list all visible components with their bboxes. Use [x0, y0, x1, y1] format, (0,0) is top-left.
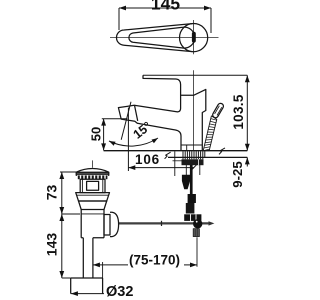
svg-text:50: 50 — [89, 127, 104, 141]
svg-text:73: 73 — [43, 185, 59, 201]
svg-text:15°: 15° — [131, 119, 155, 142]
svg-text:9-25: 9-25 — [230, 161, 245, 187]
svg-text:(75-170): (75-170) — [129, 252, 180, 267]
svg-text:Ø32: Ø32 — [106, 284, 133, 300]
svg-text:103.5: 103.5 — [231, 94, 246, 129]
svg-text:145: 145 — [151, 0, 180, 13]
svg-text:106: 106 — [135, 152, 160, 167]
svg-text:143: 143 — [44, 233, 60, 257]
